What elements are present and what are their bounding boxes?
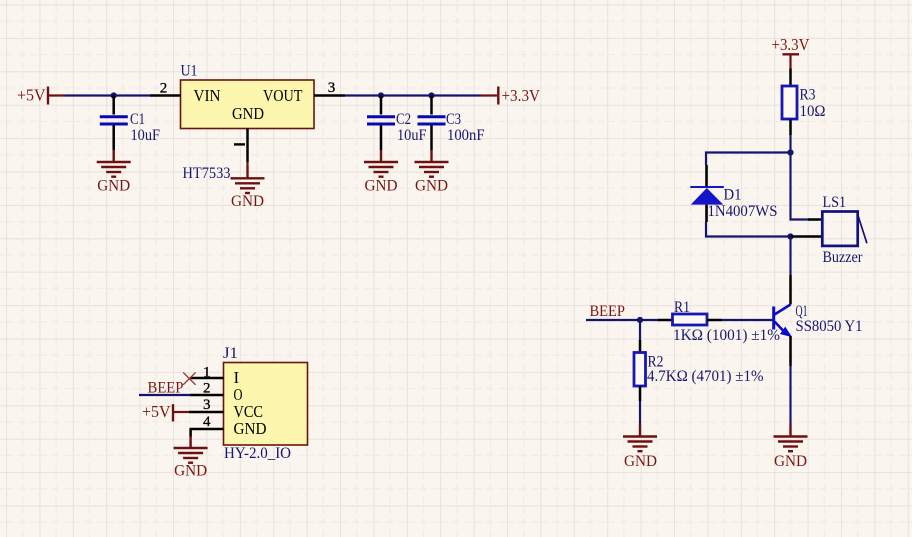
J1 pin 4 xyxy=(190,414,224,430)
buzzer LS1 xyxy=(822,194,867,266)
power port +3.3V (top) xyxy=(772,35,810,69)
capacitor C3 xyxy=(418,96,485,151)
svg-text:+3.3V: +3.3V xyxy=(772,35,810,54)
svg-text:+5V: +5V xyxy=(17,86,46,105)
resistor R3 xyxy=(782,69,826,136)
J1 pin 2 xyxy=(190,380,224,396)
svg-text:1N4007WS: 1N4007WS xyxy=(708,203,778,220)
wire U1 VOUT to +3.3V rail xyxy=(345,94,481,96)
svg-text:4.7KΩ (4701) ±1%: 4.7KΩ (4701) ±1% xyxy=(647,368,764,385)
power port +5V xyxy=(17,86,65,105)
Q1 emitter pin xyxy=(789,336,792,366)
wire junction to D1 cathode xyxy=(706,153,791,166)
svg-text:2: 2 xyxy=(203,380,211,396)
ground at C1 xyxy=(97,150,131,195)
U1 pin 3 (VOUT) xyxy=(314,80,345,96)
svg-text:GND: GND xyxy=(774,451,807,470)
svg-text:GND: GND xyxy=(415,176,448,195)
wire J1 pin 4 to ground xyxy=(189,429,192,437)
resistor R2 xyxy=(634,340,764,401)
buzzer LS1 pin 2 xyxy=(791,235,824,238)
svg-text:GND: GND xyxy=(624,451,657,470)
wire R1 to Q1 base xyxy=(722,319,772,321)
svg-text:J1: J1 xyxy=(223,345,238,362)
diode D1 1N4007WS xyxy=(690,165,777,222)
wire R3 to junction xyxy=(789,135,791,153)
svg-text:U1: U1 xyxy=(181,62,198,79)
svg-text:GND: GND xyxy=(234,419,267,438)
IC U1 HT7533 xyxy=(181,62,315,182)
Q1 collector pin xyxy=(789,275,792,305)
J1 pin 1 xyxy=(191,364,224,380)
svg-text:Buzzer: Buzzer xyxy=(823,249,864,266)
svg-text:VIN: VIN xyxy=(194,86,221,105)
wire lower junction to Q1 collector xyxy=(789,237,791,276)
svg-text:C2: C2 xyxy=(396,111,411,128)
svg-text:GND: GND xyxy=(174,461,207,480)
ground at J1 xyxy=(174,436,208,480)
svg-text:D1: D1 xyxy=(724,187,742,204)
svg-text:GND: GND xyxy=(97,176,130,195)
capacitor C2 xyxy=(367,96,427,151)
svg-text:GND: GND xyxy=(365,176,398,195)
junction node at R2 top xyxy=(637,317,643,323)
wire BEEP to R1 xyxy=(586,319,658,321)
svg-text:+5V: +5V xyxy=(142,402,171,421)
svg-text:C3: C3 xyxy=(446,111,461,128)
wire top junction down and to buzzer pin 1 xyxy=(791,153,811,220)
svg-text:C1: C1 xyxy=(130,111,145,128)
junction node at C3 xyxy=(428,92,434,98)
svg-text:3: 3 xyxy=(328,80,336,96)
no-connect X on pin 1 xyxy=(183,372,195,384)
resistor R1 xyxy=(658,299,780,344)
ground at Q1 emitter xyxy=(774,425,808,471)
svg-text:10Ω: 10Ω xyxy=(800,103,826,120)
svg-text:LS1: LS1 xyxy=(823,194,847,211)
svg-text:HY-2.0_IO: HY-2.0_IO xyxy=(224,445,291,462)
wire Q1 emitter to ground xyxy=(789,366,791,425)
capacitor C1 xyxy=(100,96,161,151)
ground at C2 xyxy=(364,150,398,195)
svg-text:GND: GND xyxy=(232,104,264,123)
wire +5V to U1 VIN xyxy=(65,94,150,96)
wire R2 to ground xyxy=(639,401,641,425)
svg-text:1KΩ (1001) ±1%: 1KΩ (1001) ±1% xyxy=(673,327,780,344)
svg-text:10uF: 10uF xyxy=(397,127,427,144)
junction node (collector rail bottom) xyxy=(787,233,793,239)
junction node at C2 xyxy=(378,92,384,98)
svg-text:SS8050 Y1: SS8050 Y1 xyxy=(796,318,863,335)
ground at U1 xyxy=(231,162,265,210)
svg-text:100nF: 100nF xyxy=(447,127,485,144)
U1 pin 2 (VIN) xyxy=(150,81,181,97)
buzzer LS1 pin 1 xyxy=(808,218,823,221)
svg-text:HT7533: HT7533 xyxy=(183,165,231,182)
svg-text:GND: GND xyxy=(231,191,264,210)
svg-text:3: 3 xyxy=(203,397,211,413)
svg-text:BEEP: BEEP xyxy=(590,303,626,320)
U1 pin 1 (GND) xyxy=(234,129,248,163)
junction node (collector rail top) xyxy=(787,149,793,155)
power port +3.3V (output rail) xyxy=(481,86,541,105)
svg-text:R3: R3 xyxy=(800,87,816,104)
ground at R2 xyxy=(623,425,657,471)
power port +5V at J1 xyxy=(142,402,189,422)
svg-text:VOUT: VOUT xyxy=(263,86,303,105)
svg-text:2: 2 xyxy=(160,81,168,97)
transistor Q1 SS8050 xyxy=(774,303,863,336)
svg-text:10uF: 10uF xyxy=(131,127,161,144)
junction node at C1 xyxy=(111,92,117,98)
connector J1 HY-2.0_IO xyxy=(223,345,308,462)
wire D1 anode to lower junction xyxy=(706,222,791,237)
svg-text:+3.3V: +3.3V xyxy=(502,86,541,105)
wire BEEP to J1 pin 2 xyxy=(139,394,190,396)
ground at C3 xyxy=(415,150,449,195)
J1 pin 3 xyxy=(189,397,224,413)
svg-text:R1: R1 xyxy=(674,299,690,316)
svg-text:1: 1 xyxy=(203,364,211,380)
svg-text:4: 4 xyxy=(203,414,211,430)
wire junction to R2 xyxy=(639,320,641,340)
